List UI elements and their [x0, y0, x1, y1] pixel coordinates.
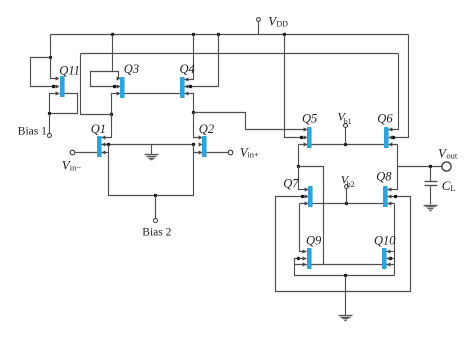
- svg-text:in+: in+: [247, 149, 259, 159]
- svg-text:b2: b2: [347, 180, 355, 189]
- svg-text:in−: in−: [70, 163, 82, 173]
- svg-text:Q6: Q6: [377, 112, 393, 126]
- svg-text:Q10: Q10: [374, 234, 396, 248]
- svg-text:b1: b1: [344, 117, 352, 126]
- svg-text:Q11: Q11: [59, 63, 80, 77]
- svg-text:Bias 1: Bias 1: [18, 125, 47, 137]
- svg-text:Q7: Q7: [283, 176, 299, 190]
- svg-text:Q1: Q1: [91, 122, 106, 136]
- svg-text:Q8: Q8: [376, 169, 392, 183]
- svg-text:Q3: Q3: [124, 62, 139, 76]
- svg-text:Q2: Q2: [199, 122, 214, 136]
- svg-text:Q5: Q5: [302, 112, 317, 126]
- svg-text:Q4: Q4: [180, 62, 195, 76]
- svg-text:out: out: [446, 151, 458, 161]
- svg-text:L: L: [450, 183, 455, 193]
- svg-text:DD: DD: [276, 20, 288, 29]
- svg-text:Q9: Q9: [306, 234, 322, 248]
- svg-text:Bias 2: Bias 2: [142, 226, 171, 238]
